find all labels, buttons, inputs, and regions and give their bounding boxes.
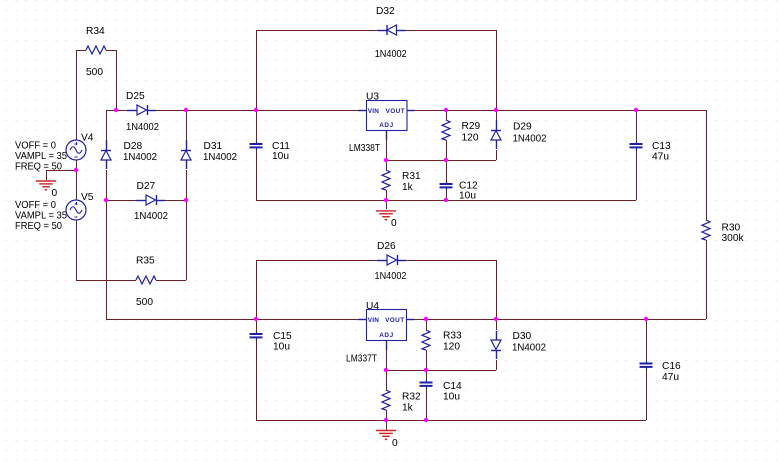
svg-text:C16: C16: [662, 361, 681, 372]
svg-text:1N4002: 1N4002: [126, 122, 159, 133]
svg-text:LM337T: LM337T: [346, 354, 377, 365]
svg-text:R29: R29: [462, 121, 481, 132]
svg-text:1N4002: 1N4002: [134, 211, 168, 222]
svg-text:C13: C13: [652, 141, 671, 152]
svg-text:VOFF = 0: VOFF = 0: [15, 141, 56, 152]
svg-text:U4: U4: [366, 301, 379, 312]
svg-text:500: 500: [136, 297, 153, 308]
svg-text:10u: 10u: [443, 392, 460, 403]
svg-text:C15: C15: [273, 331, 292, 342]
svg-text:47u: 47u: [662, 372, 679, 383]
svg-text:1k: 1k: [402, 403, 414, 414]
svg-text:R30: R30: [722, 223, 741, 234]
svg-text:VAMPL = 35: VAMPL = 35: [15, 151, 67, 162]
svg-text:0: 0: [392, 438, 398, 449]
svg-text:300k: 300k: [722, 233, 745, 244]
svg-text:D28: D28: [124, 141, 143, 152]
svg-text:D27: D27: [137, 181, 156, 192]
svg-text:VOFF = 0: VOFF = 0: [15, 200, 56, 211]
svg-text:D25: D25: [126, 91, 145, 102]
svg-text:10u: 10u: [272, 151, 289, 162]
svg-text:500: 500: [86, 67, 103, 78]
svg-text:V4: V4: [81, 133, 94, 144]
svg-text:U3: U3: [366, 92, 379, 103]
svg-text:R35: R35: [136, 256, 155, 267]
svg-text:1N4002: 1N4002: [375, 49, 407, 60]
svg-text:D30: D30: [513, 331, 532, 342]
svg-text:R32: R32: [402, 391, 421, 402]
svg-text:120: 120: [462, 133, 479, 144]
svg-text:1N4002: 1N4002: [513, 134, 547, 145]
svg-text:FREQ = 50: FREQ = 50: [15, 162, 62, 173]
svg-text:D31: D31: [204, 141, 223, 152]
svg-text:C14: C14: [443, 381, 462, 392]
svg-text:1N4002: 1N4002: [375, 271, 407, 282]
svg-text:R34: R34: [86, 26, 105, 37]
svg-text:120: 120: [443, 342, 460, 353]
svg-text:10u: 10u: [273, 342, 290, 353]
svg-text:VAMPL = 35: VAMPL = 35: [15, 211, 67, 222]
svg-text:1N4002: 1N4002: [123, 152, 157, 163]
svg-text:VOUT: VOUT: [385, 317, 404, 324]
svg-text:D29: D29: [513, 122, 532, 133]
svg-text:V5: V5: [81, 192, 94, 203]
svg-text:VIN: VIN: [368, 317, 379, 324]
svg-text:1k: 1k: [402, 182, 414, 193]
svg-text:47u: 47u: [652, 152, 669, 163]
svg-text:R31: R31: [402, 171, 421, 182]
svg-text:VIN: VIN: [368, 108, 379, 115]
svg-text:1N4002: 1N4002: [203, 152, 237, 163]
svg-text:LM338T: LM338T: [349, 143, 380, 154]
svg-text:FREQ = 50: FREQ = 50: [15, 221, 62, 232]
svg-text:VOUT: VOUT: [386, 108, 405, 115]
svg-text:10u: 10u: [459, 191, 476, 202]
svg-text:D32: D32: [376, 6, 395, 17]
svg-text:0: 0: [52, 188, 58, 199]
svg-text:ADJ: ADJ: [379, 332, 394, 339]
svg-text:R33: R33: [443, 331, 462, 342]
svg-text:1N4002: 1N4002: [512, 343, 546, 354]
svg-text:ADJ: ADJ: [379, 122, 394, 129]
svg-text:0: 0: [391, 218, 397, 229]
svg-text:D26: D26: [377, 241, 396, 252]
